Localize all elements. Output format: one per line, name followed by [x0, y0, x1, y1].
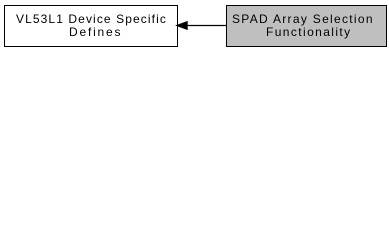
label line 2: Functionality — [266, 26, 352, 39]
label line 1: SPAD Array Selection — [232, 13, 374, 26]
arrowhead — [177, 22, 188, 30]
label line 1: VL53L1 Device Specific — [16, 13, 167, 26]
node: SPAD Array Selection Functionality (current, gray) — [226, 5, 387, 47]
label line 2: Defines — [69, 26, 122, 39]
wire — [186, 25, 226, 27]
node: VL53L1 Device Specific Defines — [4, 5, 178, 47]
edge arrow from gray node to left node — [0, 0, 389, 52]
